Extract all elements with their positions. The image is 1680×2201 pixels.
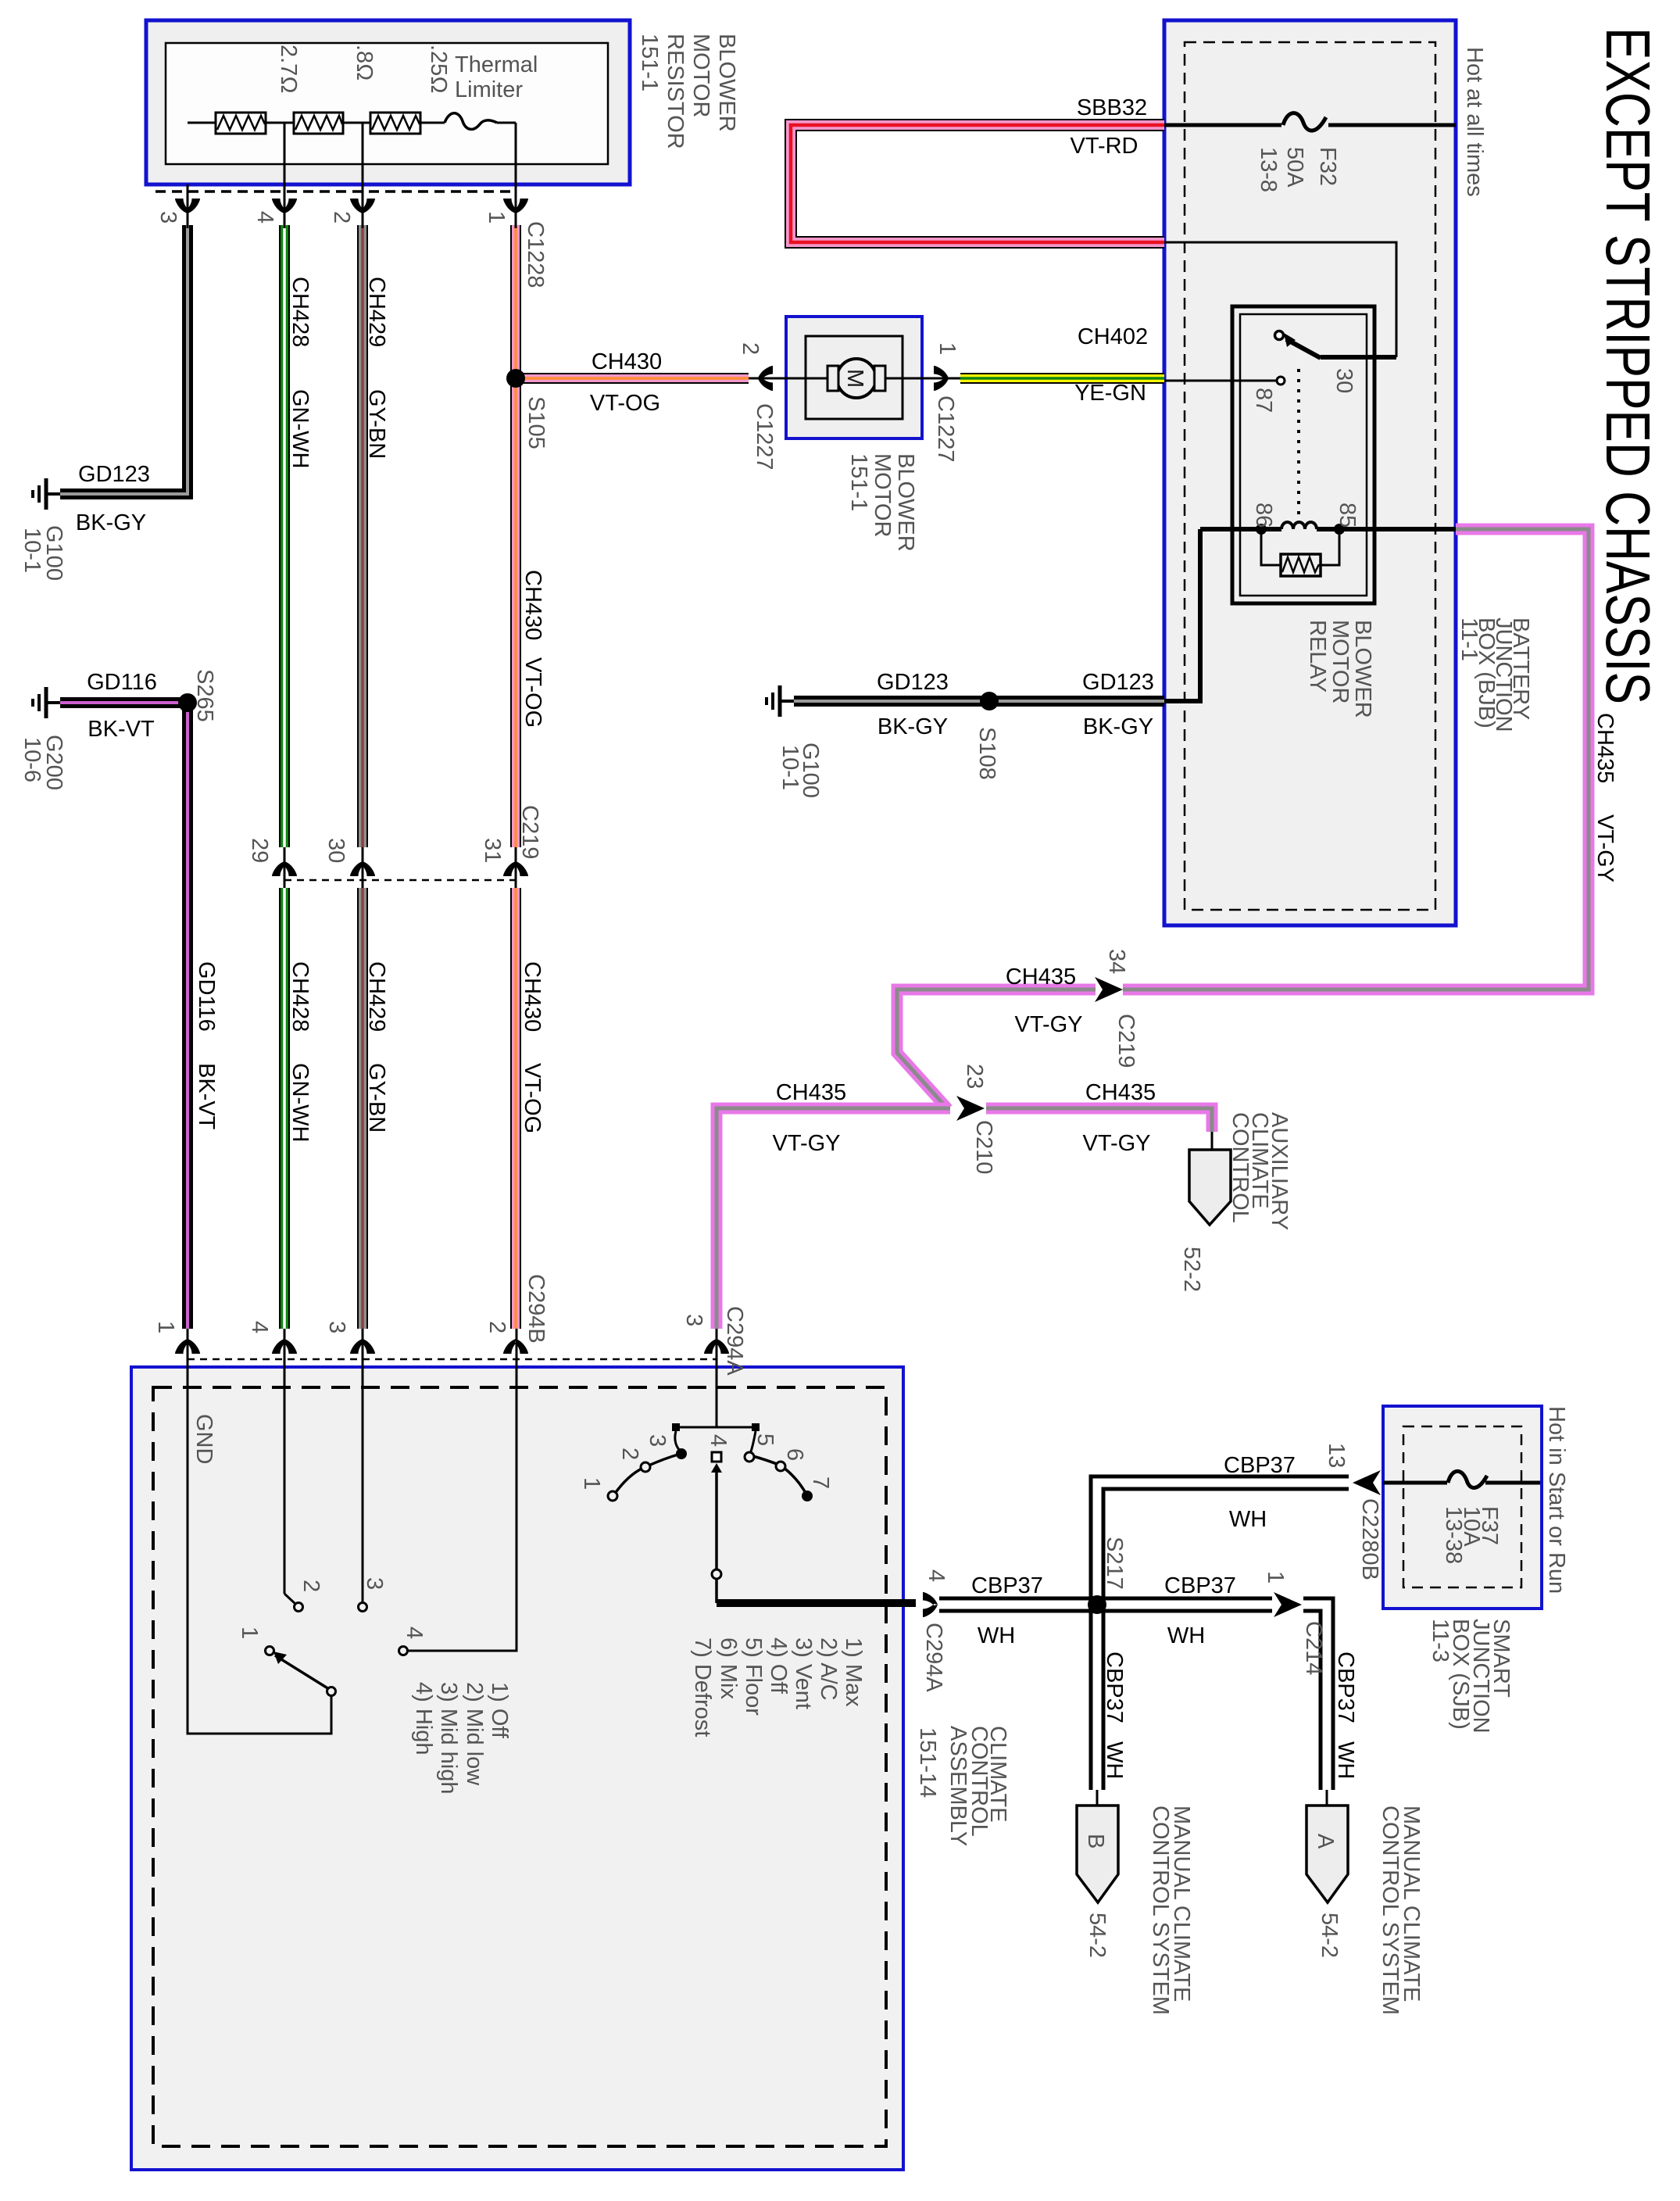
- mode wiper blade: [715, 1471, 718, 1569]
- splice S105: [506, 369, 525, 388]
- svg-text:C294A: C294A: [722, 1306, 747, 1376]
- motor leads: [749, 378, 960, 380]
- svg-text:CBP37: CBP37: [971, 1573, 1043, 1598]
- mode contact 1: [608, 1491, 617, 1501]
- svg-text:BK-GY: BK-GY: [1083, 714, 1153, 739]
- svg-text:.8Ω: .8Ω: [352, 45, 377, 81]
- svg-text:BK-GY: BK-GY: [878, 714, 948, 739]
- svg-text:Hot at all times: Hot at all times: [1462, 47, 1487, 197]
- lead resistor pin4: [284, 123, 286, 228]
- svg-text:30: 30: [1331, 368, 1357, 393]
- wire GD123 BK-GY left (resistor pin3 to G100): [60, 225, 188, 494]
- svg-text:4: 4: [402, 1627, 427, 1639]
- dart C219 pin34: [1095, 977, 1123, 1002]
- crowfoot C294B pin3: [350, 1339, 375, 1354]
- svg-text:5: 5: [752, 1433, 777, 1446]
- svg-text:MOTOR: MOTOR: [1328, 620, 1353, 703]
- wire CH428 GN-WH upper: [279, 225, 290, 847]
- svg-text:VT-GY: VT-GY: [1082, 1131, 1150, 1156]
- svg-text:Hot in Start or Run: Hot in Start or Run: [1544, 1406, 1569, 1594]
- svg-text:10-1: 10-1: [777, 745, 802, 790]
- splice S217: [1088, 1595, 1106, 1614]
- svg-text:86: 86: [1251, 503, 1276, 528]
- BJB dashed border: [1185, 42, 1435, 910]
- svg-text:VT-GY: VT-GY: [772, 1131, 840, 1156]
- mode output link: [715, 1579, 718, 1603]
- wire CH429 GY-BN lower: [357, 888, 368, 1329]
- svg-text:GD123: GD123: [877, 670, 949, 695]
- svg-text:CONTROL SYSTEM: CONTROL SYSTEM: [1148, 1806, 1173, 2015]
- crowfoot C294B pin4: [272, 1339, 297, 1354]
- svg-text:3: 3: [324, 1321, 349, 1333]
- dart C210 pin23: [956, 1096, 985, 1121]
- svg-text:S108: S108: [974, 727, 999, 780]
- relay pin86 junction: [1256, 524, 1267, 535]
- svg-text:Limiter: Limiter: [455, 77, 523, 102]
- svg-text:85: 85: [1335, 503, 1360, 528]
- relay pin87 wire: [1164, 380, 1276, 382]
- crowfoot C294B pin2: [503, 1339, 528, 1354]
- svg-text:MOTOR: MOTOR: [870, 453, 895, 537]
- blower switch common wire: [188, 1367, 331, 1734]
- climate control assembly box: [131, 1367, 903, 2170]
- relay coil wire: [1200, 527, 1456, 531]
- svg-text:GN-WH: GN-WH: [288, 1063, 313, 1142]
- svg-text:F32: F32: [1315, 147, 1340, 186]
- svg-text:ASSEMBLY: ASSEMBLY: [945, 1726, 970, 1846]
- assembly connector dashed link: [188, 1358, 717, 1361]
- svg-text:11-3: 11-3: [1428, 1619, 1453, 1662]
- connector C219 dashed link: [284, 879, 517, 882]
- svg-text:WH: WH: [1102, 1741, 1127, 1779]
- svg-text:GND: GND: [191, 1414, 216, 1464]
- mode contact arc right: [750, 1455, 806, 1493]
- svg-text:VT-OG: VT-OG: [590, 391, 660, 416]
- svg-text:2: 2: [738, 342, 763, 355]
- svg-text:10-6: 10-6: [20, 737, 45, 782]
- svg-text:13: 13: [1324, 1443, 1349, 1468]
- fuse F32 symbol: [1283, 113, 1326, 131]
- pentagon B manual climate control: [1077, 1806, 1118, 1902]
- wire CBP37 WH right to C214: [1097, 1597, 1272, 1613]
- crowfoot C1228 pin4: [272, 199, 297, 213]
- svg-text:GY-BN: GY-BN: [364, 1063, 389, 1133]
- svg-text:1: 1: [484, 211, 509, 224]
- svg-text:CH435: CH435: [1085, 1080, 1156, 1105]
- mode switch top bar: [676, 1426, 756, 1429]
- wire CH430 VT-OG upper: [510, 225, 521, 847]
- svg-text:54-2: 54-2: [1085, 1913, 1110, 1958]
- svg-text:23: 23: [962, 1064, 987, 1089]
- svg-text:BLOWER: BLOWER: [1350, 620, 1375, 718]
- svg-text:CONTROL: CONTROL: [1228, 1112, 1253, 1223]
- svg-text:C219: C219: [1113, 1014, 1138, 1068]
- svg-text:GY-BN: GY-BN: [364, 389, 389, 459]
- wire CH430 VT-OG lower: [510, 888, 521, 1329]
- crowfoot C219 pin29: [272, 861, 297, 876]
- C219 pin31 lead: [515, 847, 517, 888]
- SJB fuse F37 wire: [1383, 1481, 1540, 1485]
- svg-text:1) Max: 1) Max: [841, 1637, 866, 1707]
- lead assembly pin1: [187, 1329, 189, 1367]
- svg-text:BK-GY: BK-GY: [76, 510, 146, 535]
- wire CH430 VT-OG branch to motor: [516, 373, 749, 384]
- svg-text:CH429: CH429: [364, 961, 389, 1032]
- mode contact 5: [745, 1452, 754, 1462]
- svg-text:C214: C214: [1301, 1621, 1326, 1675]
- lead assembly pin4: [284, 1329, 286, 1594]
- svg-text:.25Ω: .25Ω: [426, 45, 451, 94]
- C219 pin30 lead: [362, 847, 364, 888]
- blower motor resistor box: [146, 20, 630, 184]
- svg-text:VT-OG: VT-OG: [520, 1063, 545, 1133]
- aux climate control pentagon: [1189, 1150, 1231, 1225]
- svg-text:CH402: CH402: [1078, 324, 1148, 349]
- svg-text:13-8: 13-8: [1256, 147, 1281, 192]
- mode switch bar arm right: [750, 1431, 756, 1454]
- svg-text:4: 4: [247, 1321, 272, 1333]
- wire CBP37 WH fuse to S217: [1097, 1483, 1349, 1605]
- lead pentagon A: [1326, 1790, 1328, 1807]
- resistor inner box: [166, 43, 608, 164]
- wire CBP37 WH after C214 to pentagon A: [1303, 1605, 1327, 1790]
- svg-text:5) Floor: 5) Floor: [741, 1637, 766, 1716]
- crowfoot C1227 pin2 left: [758, 366, 773, 391]
- svg-text:2.7Ω: 2.7Ω: [276, 45, 301, 94]
- svg-text:CH435: CH435: [1006, 965, 1076, 990]
- svg-text:RELAY: RELAY: [1305, 620, 1330, 693]
- mode wiper circle: [712, 1569, 721, 1579]
- wire CH435 VT-GY from BJB: [1123, 529, 1589, 990]
- relay coil: [1281, 522, 1317, 529]
- crowfoot C1228 pin2: [350, 199, 375, 213]
- svg-text:WH: WH: [1167, 1623, 1205, 1648]
- SJB dashed border: [1403, 1426, 1521, 1587]
- blower switch contact 3: [359, 1603, 367, 1612]
- svg-text:VT-RD: VT-RD: [1071, 134, 1138, 159]
- svg-text:C1227: C1227: [933, 395, 958, 462]
- pentagon A manual climate control: [1306, 1806, 1348, 1902]
- svg-text:BLOWER: BLOWER: [893, 453, 918, 552]
- svg-text:1: 1: [237, 1627, 262, 1639]
- svg-text:C210: C210: [971, 1120, 996, 1174]
- svg-text:GD123: GD123: [78, 462, 150, 487]
- crowfoot C294A pin4 right: [923, 1592, 938, 1617]
- ground G200: [33, 687, 60, 718]
- svg-text:1: 1: [935, 342, 960, 355]
- wire GD116 BK-VT (G200 to S265 to assembly pin1): [60, 703, 188, 1329]
- svg-text:10-1: 10-1: [20, 528, 45, 573]
- dart C2280B pin13: [1353, 1470, 1381, 1495]
- crowfoot C1228 pin3: [175, 199, 200, 213]
- svg-text:3: 3: [362, 1577, 387, 1590]
- svg-text:3) Vent: 3) Vent: [791, 1637, 816, 1709]
- svg-text:CH430: CH430: [520, 570, 545, 640]
- mode switch output wire thick: [717, 1599, 916, 1607]
- svg-text:CH428: CH428: [288, 277, 313, 347]
- svg-text:CONTROL SYSTEM: CONTROL SYSTEM: [1378, 1806, 1403, 2015]
- crowfoot C294B pin1: [175, 1339, 200, 1354]
- resistor .25ohm: [370, 113, 420, 134]
- resistor connector C1228 dashed link: [155, 190, 514, 193]
- blower switch lead2 jog: [284, 1594, 295, 1604]
- svg-text:6) Mix: 6) Mix: [716, 1637, 741, 1699]
- svg-text:3: 3: [155, 211, 181, 224]
- svg-text:WH: WH: [1229, 1507, 1267, 1532]
- svg-text:C1228: C1228: [523, 221, 548, 288]
- blower switch contact4 lead: [408, 1650, 517, 1652]
- ground G100 right: [767, 685, 794, 717]
- svg-text:YE-GN: YE-GN: [1074, 381, 1146, 406]
- wire CBP37 WH S217 down to pentagon B: [1089, 1605, 1106, 1790]
- relay box inner: [1240, 314, 1367, 596]
- blower motor box: [786, 317, 922, 438]
- blower switch pivot: [266, 1647, 274, 1655]
- svg-text:2: 2: [484, 1321, 509, 1333]
- relay pin87 contact: [1277, 377, 1285, 385]
- relay actuation dotted line: [1297, 369, 1300, 516]
- wire CH435 VT-GY branch to C294A: [717, 1108, 950, 1329]
- relay resistor: [1281, 554, 1321, 576]
- svg-text:29: 29: [247, 838, 272, 863]
- crowfoot C294A pin3: [704, 1339, 729, 1354]
- svg-text:B: B: [1083, 1834, 1108, 1848]
- svg-text:CBP37: CBP37: [1164, 1573, 1236, 1598]
- svg-text:Thermal: Thermal: [455, 52, 538, 77]
- lead assembly pin3: [362, 1329, 364, 1603]
- mode contact 7: [802, 1491, 813, 1501]
- svg-text:BLOWER: BLOWER: [714, 34, 739, 132]
- relay pin30 feed wire: [1164, 242, 1396, 357]
- svg-text:C294B: C294B: [524, 1274, 549, 1344]
- svg-text:4) Off: 4) Off: [766, 1637, 791, 1695]
- lead assembly C294A pin3: [716, 1329, 718, 1367]
- mode contact 3: [676, 1448, 687, 1459]
- svg-text:MOTOR: MOTOR: [688, 34, 713, 117]
- assembly dashed border: [153, 1387, 886, 2146]
- fuse F32 wire: [1164, 123, 1456, 127]
- mode wiper arrowhead: [711, 1463, 722, 1473]
- svg-text:52-2: 52-2: [1179, 1247, 1204, 1292]
- svg-text:CH430: CH430: [592, 349, 662, 374]
- svg-text:EXCEPT STRIPPED CHASSIS: EXCEPT STRIPPED CHASSIS: [1593, 27, 1663, 704]
- blower switch contact 4: [399, 1647, 408, 1655]
- blower switch blade: [275, 1655, 329, 1689]
- wire CH435 VT-GY middle segment: [897, 990, 1096, 1109]
- lead assembly pin2: [408, 1329, 517, 1651]
- svg-text:1) Off: 1) Off: [487, 1682, 512, 1739]
- svg-text:54-2: 54-2: [1317, 1913, 1342, 1958]
- motor inner box: [806, 336, 903, 419]
- svg-text:2) Mid low: 2) Mid low: [462, 1682, 487, 1786]
- svg-text:CH435: CH435: [776, 1080, 846, 1105]
- svg-text:SBB32: SBB32: [1077, 95, 1147, 120]
- mode contact arc left: [614, 1454, 681, 1494]
- svg-text:1: 1: [1263, 1571, 1288, 1584]
- mode contact 6: [776, 1462, 785, 1471]
- svg-text:S265: S265: [192, 669, 217, 722]
- relay pin30 contact: [1275, 331, 1284, 340]
- svg-text:87: 87: [1251, 388, 1276, 413]
- crowfoot C219 pin30: [350, 861, 375, 876]
- svg-text:WH: WH: [1333, 1741, 1358, 1779]
- splice S108: [980, 692, 999, 710]
- svg-text:151-1: 151-1: [637, 34, 662, 91]
- svg-text:VT-GY: VT-GY: [1592, 814, 1617, 882]
- relay pin85 junction: [1334, 524, 1345, 535]
- svg-text:CBP37: CBP37: [1333, 1652, 1358, 1723]
- svg-text:151-1: 151-1: [846, 453, 871, 511]
- fuse F37 symbol: [1448, 1471, 1487, 1487]
- svg-text:1: 1: [153, 1321, 178, 1333]
- svg-text:M: M: [842, 369, 867, 388]
- mode wiper contact 4 square: [712, 1452, 721, 1462]
- svg-text:RESISTOR: RESISTOR: [663, 34, 688, 149]
- lead resistor pin1: [515, 123, 517, 228]
- svg-text:151-14: 151-14: [915, 1727, 940, 1798]
- svg-text:31: 31: [480, 838, 505, 863]
- C219 pin29 lead: [284, 847, 286, 888]
- svg-text:3: 3: [681, 1314, 706, 1326]
- svg-text:2) A/C: 2) A/C: [816, 1637, 841, 1701]
- svg-text:GD116: GD116: [87, 670, 157, 695]
- wire CH429 GY-BN upper: [357, 225, 368, 847]
- svg-text:4: 4: [252, 211, 277, 224]
- lead aux pentagon: [1211, 1132, 1214, 1152]
- svg-text:34: 34: [1104, 949, 1129, 974]
- svg-text:GD116: GD116: [194, 961, 219, 1032]
- blower switch blade contact: [327, 1687, 336, 1696]
- lead resistor pin3: [187, 184, 189, 228]
- svg-text:13-38: 13-38: [1441, 1506, 1466, 1564]
- mode switch lead from pin3: [716, 1367, 718, 1427]
- svg-text:GD123: GD123: [1082, 670, 1154, 695]
- battery junction box BJB: [1164, 20, 1456, 925]
- motor brushes: [827, 366, 838, 391]
- svg-text:7: 7: [808, 1476, 833, 1489]
- svg-text:6: 6: [782, 1448, 807, 1461]
- smart junction box SJB: [1383, 1406, 1542, 1609]
- svg-text:C294A: C294A: [921, 1623, 946, 1692]
- svg-text:C1227: C1227: [752, 403, 777, 470]
- svg-text:11-1: 11-1: [1457, 617, 1482, 661]
- wire CH428 GN-WH lower: [279, 888, 290, 1329]
- relay resistor leads: [1261, 529, 1339, 565]
- crowfoot C219 pin31: [503, 861, 528, 876]
- relay blade: [1286, 339, 1321, 358]
- svg-text:C219: C219: [517, 805, 542, 859]
- svg-text:A: A: [1313, 1834, 1338, 1849]
- wire CBP37 WH left to C294A pin4: [939, 1597, 1097, 1613]
- splice S265: [178, 693, 197, 712]
- mode switch bar arm left: [675, 1431, 681, 1451]
- svg-text:S217: S217: [1102, 1537, 1127, 1590]
- svg-text:2: 2: [329, 211, 354, 224]
- svg-text:BK-VT: BK-VT: [194, 1063, 219, 1130]
- svg-text:50A: 50A: [1282, 147, 1307, 188]
- wire CH402 YE-GN: [960, 373, 1164, 384]
- motor M circle: [837, 359, 876, 398]
- wire SBB32 VT-RD: [791, 125, 1164, 242]
- svg-text:C2280B: C2280B: [1357, 1498, 1382, 1580]
- svg-text:CBP37: CBP37: [1224, 1453, 1296, 1478]
- thermal limiter squiggle: [445, 113, 497, 130]
- dart C214 pin1: [1274, 1592, 1302, 1617]
- svg-text:3: 3: [645, 1434, 670, 1447]
- svg-text:4: 4: [706, 1434, 731, 1447]
- relay ground wire to GD123: [1164, 529, 1200, 701]
- wire CH435 VT-GY to aux climate control: [986, 1108, 1212, 1132]
- svg-text:30: 30: [323, 838, 349, 863]
- mode contact 2: [641, 1462, 650, 1472]
- svg-text:BK-VT: BK-VT: [88, 717, 155, 742]
- svg-text:CH428: CH428: [288, 961, 313, 1032]
- blower switch contact 2: [295, 1603, 303, 1612]
- resistor .8ohm: [294, 113, 343, 134]
- svg-text:VT-OG: VT-OG: [520, 657, 545, 728]
- resistor 2.7ohm: [216, 113, 266, 134]
- wire GD123 BK-GY right: [794, 696, 1164, 707]
- crowfoot C1227 pin1 right: [934, 366, 949, 391]
- svg-text:7) Defrost: 7) Defrost: [690, 1637, 715, 1737]
- svg-text:3) Mid high: 3) Mid high: [436, 1682, 461, 1794]
- blower switch blade arrowhead: [273, 1652, 287, 1664]
- lead pentagon B: [1096, 1790, 1099, 1807]
- svg-text:GN-WH: GN-WH: [288, 389, 313, 468]
- svg-text:2: 2: [617, 1448, 642, 1460]
- svg-text:1: 1: [579, 1477, 604, 1490]
- ground G100 left: [33, 478, 60, 510]
- svg-text:2: 2: [298, 1580, 323, 1592]
- svg-text:4) High: 4) High: [411, 1682, 436, 1755]
- svg-text:CH429: CH429: [364, 277, 389, 347]
- svg-text:WH: WH: [978, 1623, 1015, 1648]
- svg-text:S105: S105: [524, 396, 549, 449]
- lead resistor pin2: [362, 123, 364, 228]
- svg-text:4: 4: [924, 1569, 949, 1582]
- svg-text:CBP37: CBP37: [1102, 1652, 1127, 1723]
- relay box outer: [1232, 306, 1374, 603]
- svg-text:VT-GY: VT-GY: [1014, 1012, 1082, 1037]
- resistor chain wire: [188, 122, 516, 124]
- svg-text:CH430: CH430: [520, 961, 545, 1032]
- crowfoot C1228 pin1: [503, 199, 528, 213]
- svg-text:CH435: CH435: [1592, 713, 1617, 783]
